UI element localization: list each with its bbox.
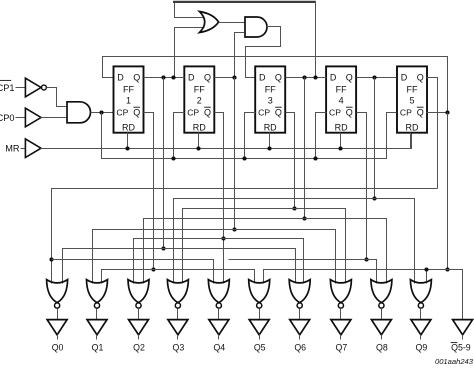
svg-text:RD: RD	[122, 122, 135, 132]
wire rail 5 (Q2): NOR O1 left to NOR O7 left	[93, 230, 336, 284]
nor-gate G2 (output Q2 decode)	[128, 280, 149, 303]
svg-text:FF: FF	[194, 85, 205, 95]
wire buffer U2 output to AND G13 bottom input	[41, 117, 67, 119]
svg-text:D: D	[401, 73, 408, 83]
junction RD4 on MR rail	[338, 146, 342, 150]
junction Q3 riser	[313, 75, 317, 79]
svg-text:Q4: Q4	[213, 342, 225, 352]
junction Q3 branch down	[302, 75, 306, 79]
wire rail 6 (Qbar2): NOR O2 left to NOR O6 right	[134, 239, 304, 284]
wire buffer B7 output stub	[340, 335, 342, 340]
junction RD1 on MR rail	[125, 146, 129, 150]
junction Qbar5 on rail 9	[445, 267, 449, 271]
svg-text:Q: Q	[346, 108, 353, 118]
svg-text:Q: Q	[346, 73, 353, 83]
wire rail 9a (Qbar1): NOR O1 right to NOR O5 left	[102, 270, 255, 284]
wire Q4: FF4 Q to FF5 D	[357, 77, 397, 79]
nor-gate G3 (output Q3 decode)	[167, 280, 188, 303]
or-gate G11 (feedback correction)	[200, 12, 219, 33]
svg-text:Q8: Q8	[376, 342, 388, 352]
flip-flop FF1	[114, 66, 144, 132]
junction clock tap FF3	[242, 156, 246, 160]
wire buffer B4 output stub	[218, 335, 220, 340]
buffer B4 (output Q4)	[209, 320, 229, 335]
svg-text:FF: FF	[336, 85, 347, 95]
wire Qbar2 drop to NOR O4 right input	[215, 113, 224, 284]
wire Q1: FF1 Q to FF2 D	[144, 77, 185, 79]
wire buffer B9 output stub	[420, 335, 422, 340]
svg-text:D: D	[188, 73, 195, 83]
svg-text:FF: FF	[407, 85, 418, 95]
wire CP0 label to buffer	[16, 117, 26, 119]
svg-text:CP0: CP0	[0, 113, 15, 123]
buffer B0 (output Q0)	[47, 320, 67, 335]
svg-text:5: 5	[409, 95, 414, 105]
wire Q2: FF2 Q to AND/decoder node	[215, 77, 235, 79]
svg-text:D: D	[117, 73, 124, 83]
buffer B5 (output Q5)	[249, 320, 269, 335]
junction Q1 branch down	[161, 75, 165, 79]
wire buffer B0 output stub	[57, 335, 59, 340]
wire OR gate top input from top line	[175, 3, 205, 18]
nor-gate G6 (output Q6 decode)	[289, 280, 310, 303]
junction Qbar2 on rail 6	[221, 236, 225, 240]
nor-gate G1 (output Q1 decode)	[87, 280, 108, 303]
junction Qbar5 node	[445, 110, 449, 114]
buffer B9 (output Q9)	[411, 320, 431, 335]
flip-flop FF3	[255, 66, 285, 132]
wire MR label to buffer	[21, 148, 26, 150]
buffer B1 (output Q1)	[87, 320, 107, 335]
wire clock tap to FF4 CP	[316, 113, 327, 159]
wire clock tap to FF5 CP	[387, 113, 397, 159]
wire AND G12 output to FF3 D input	[246, 27, 281, 78]
wire FF5 RD pin to MR rail	[410, 133, 412, 149]
svg-text:RD: RD	[406, 122, 419, 132]
wire buffer B2 output stub	[138, 335, 140, 340]
nor-gate G4 (output Q4 decode)	[208, 280, 229, 303]
wire clock: AND G13 output to FF1 CP	[91, 112, 114, 114]
junction Q3 on rail 4	[302, 216, 306, 220]
wire clock distribution rail	[102, 113, 397, 159]
nor-gate G0 (output Q0 decode)	[47, 280, 68, 303]
svg-text:Q0: Q0	[52, 342, 64, 352]
svg-text:Q: Q	[133, 73, 140, 83]
wire buffer B5 output stub	[259, 335, 261, 340]
junction clock node	[99, 110, 103, 114]
wire OR output to AND input	[219, 22, 245, 24]
wire OR gate bottom input from node Q1	[175, 28, 205, 78]
wire rail 7 (Q1): NOR O0 right to NOR O6 left	[63, 249, 296, 284]
svg-text:Q5: Q5	[254, 342, 266, 352]
svg-text:Q: Q	[204, 73, 211, 83]
wire Q4 drop to rail 2	[374, 78, 376, 199]
wire clock tap to FF2 CP	[174, 113, 185, 159]
svg-text:RD: RD	[335, 122, 348, 132]
wire NOR G0 bubble to buffer B0	[57, 309, 59, 320]
buffer B3 (output Q3)	[168, 320, 188, 335]
buffer B10 (output Q5-9)	[453, 320, 473, 335]
svg-text:001aah243: 001aah243	[435, 357, 474, 366]
junction Q2 node	[232, 75, 236, 79]
junction Q4 branch down	[372, 75, 376, 79]
wire rail 2 (Q4): NOR O3 left to NOR O9 left	[174, 199, 415, 284]
wire NOR G5 bubble to buffer B5	[259, 309, 261, 320]
wire rail 8a (Q5) to NOR O4 left	[52, 260, 214, 284]
svg-text:FF: FF	[265, 85, 276, 95]
svg-text:Q: Q	[133, 108, 140, 118]
nor-gate G7 (output Q7 decode)	[330, 280, 351, 303]
wire buffer B8 output stub	[381, 335, 383, 340]
wire MR reset rail to all FF RD pins	[41, 133, 412, 149]
svg-text:RD: RD	[264, 122, 277, 132]
wire Q1 drop to rail	[163, 78, 165, 249]
wire NOR G4 bubble to buffer B4	[218, 309, 220, 320]
wire FF4 RD pin to MR rail	[340, 133, 342, 149]
wire NOR G7 bubble to buffer B7	[340, 309, 342, 320]
wire Q5 drop to rail 1	[427, 78, 438, 189]
wire Qbar5: FF5 to feedback riser	[427, 112, 448, 114]
wire Q3: FF3 Q to FF4 D	[286, 77, 327, 79]
junction Q4 on rail 2	[372, 196, 376, 200]
buffer U2 (CP0 input)	[25, 108, 41, 127]
junction Q1 on rail 7	[161, 246, 165, 250]
buffer U3 (MR input)	[25, 139, 41, 158]
junction Q1 to OR input riser	[171, 75, 175, 79]
wire NOR G2 bubble to buffer B2	[138, 309, 140, 320]
wire buffer B6 output stub	[299, 335, 301, 340]
svg-text:CP: CP	[258, 108, 270, 118]
nor-gate G9 (output Q9 decode)	[410, 280, 431, 303]
buffer B8 (output Q8)	[371, 320, 391, 335]
wire NOR G9 bubble to buffer B9	[420, 309, 422, 320]
wire NOR G3 bubble to buffer B3	[177, 309, 179, 320]
svg-text:D: D	[259, 73, 266, 83]
junction clock tap FF2	[171, 156, 175, 160]
wire FF1 RD pin to MR rail	[127, 133, 129, 149]
inverter U1 (CP1 input)	[25, 78, 41, 97]
wire inverter U1 output to AND G13 top input	[47, 88, 67, 107]
svg-text:CP: CP	[329, 108, 341, 118]
svg-text:2: 2	[197, 95, 202, 105]
svg-text:4: 4	[339, 95, 344, 105]
nor-gate G5 (output Q5 decode)	[249, 280, 270, 303]
buffer B7 (output Q7)	[331, 320, 351, 335]
wire Qbar5 drop to rail 9	[447, 113, 449, 270]
svg-text:CP1: CP1	[0, 83, 15, 93]
junction RD3 on MR rail	[267, 146, 271, 150]
and-gate G13 (clock gating)	[67, 102, 90, 123]
svg-text:1: 1	[126, 95, 131, 105]
svg-text:Q: Q	[275, 108, 282, 118]
wire rail 3 (Qbar3): NOR O3 right to NOR O7 right	[183, 209, 346, 284]
svg-text:Q: Q	[417, 73, 424, 83]
wire NOR G1 bubble to buffer B1	[96, 309, 98, 320]
junction RD2 on MR rail	[196, 146, 200, 150]
wire CP1 label to inverter	[16, 87, 26, 89]
flip-flop FF4	[326, 66, 356, 132]
wire buffer B1 output stub	[96, 335, 98, 340]
svg-text:CP: CP	[187, 108, 199, 118]
flip-flop FF5	[397, 66, 427, 132]
junction O9 right tap	[424, 267, 428, 271]
svg-text:CP: CP	[116, 108, 128, 118]
svg-text:Q: Q	[275, 73, 282, 83]
svg-text:Q2: Q2	[133, 342, 145, 352]
wire Q2 drop to rail 5	[234, 78, 236, 230]
wire rail 9b (Qbar5): NOR O5 right to output buffer	[264, 270, 463, 320]
svg-text:Q5-9: Q5-9	[451, 342, 471, 352]
buffer B6 (output Q6)	[290, 320, 310, 335]
wire Qbar5 feedback rail to FF1 D input	[103, 57, 448, 113]
wire rail 8b (Qbar4) to NOR O8 left	[229, 260, 377, 284]
nor-gate G8 (output Q8 decode)	[371, 280, 392, 303]
svg-text:FF: FF	[123, 85, 134, 95]
svg-text:Q1: Q1	[92, 342, 104, 352]
wire NOR G8 bubble to buffer B8	[381, 309, 383, 320]
junction Qbar3 on rail 3	[292, 206, 296, 210]
junction clock tap FF4	[313, 156, 317, 160]
wire clock tap to FF3 CP	[245, 113, 256, 159]
wire rail 1 (Q5) to NOR O0 left	[52, 189, 438, 284]
svg-text:CP: CP	[400, 108, 412, 118]
wire Qbar4 drop	[357, 113, 367, 260]
junction Qbar1 on rail 9	[151, 267, 155, 271]
wire O9 right input tap	[426, 270, 428, 284]
wire buffer B3 output stub	[177, 335, 179, 340]
wire Qbar3 drop	[286, 113, 295, 209]
wire buffer B10 output stub	[462, 335, 464, 340]
flip-flop FF2	[184, 66, 214, 132]
svg-text:Q3: Q3	[173, 342, 185, 352]
wire Q3 drop to rail 4	[304, 78, 306, 219]
wire AND G12 bottom input from node Q2	[235, 33, 245, 78]
junction rail1/rail8 crossover	[49, 257, 53, 261]
wire NOR G6 bubble to buffer B6	[299, 309, 301, 320]
svg-text:Q: Q	[417, 108, 424, 118]
svg-text:D: D	[330, 73, 337, 83]
svg-text:Q9: Q9	[416, 342, 428, 352]
wire Q3 riser to top line	[315, 3, 317, 78]
svg-text:RD: RD	[193, 122, 206, 132]
svg-text:Q7: Q7	[336, 342, 348, 352]
buffer B2 (output Q2)	[129, 320, 149, 335]
svg-text:MR: MR	[5, 144, 20, 154]
junction Q2 on rail 5	[232, 227, 236, 231]
svg-text:Q6: Q6	[294, 342, 306, 352]
wire rail 4 (Q3): NOR O2 right to NOR O8 right	[144, 219, 387, 284]
wire FF3 RD pin to MR rail	[269, 133, 271, 149]
wire top feedback line (Q3 riser to OR gate, thick)	[173, 1, 316, 3]
svg-text:3: 3	[268, 95, 273, 105]
and-gate G12 (feedback correction)	[245, 17, 267, 37]
wire FF2 RD pin to MR rail	[198, 133, 200, 149]
svg-text:Q: Q	[204, 108, 211, 118]
junction Qbar4 on rail 8	[364, 257, 368, 261]
wire Qbar1 drop	[144, 113, 154, 270]
